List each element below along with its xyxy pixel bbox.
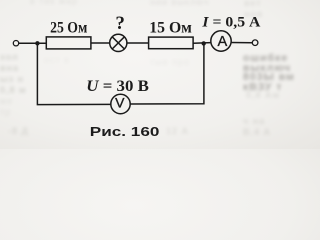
svg-text:A: A (218, 34, 228, 50)
wire R2 to ammeter (193, 42, 211, 45)
resistor R1 box (46, 37, 91, 49)
wire lamp to resistor R2 (127, 42, 149, 44)
lamp HL (110, 34, 127, 51)
wire left branch down (37, 44, 110, 105)
wire voltmeter to right branch up (130, 44, 204, 104)
wire R1 to lamp (91, 42, 110, 44)
resistor R2 box (149, 37, 194, 49)
svg-text:V: V (115, 94, 125, 110)
right terminal (252, 40, 258, 46)
node junction left (35, 41, 39, 45)
svg-text:U = 30 В: U = 30 В (86, 78, 149, 95)
wire ammeter to right terminal (231, 42, 252, 44)
svg-text:25 Ом: 25 Ом (50, 20, 88, 37)
svg-text:Рис. 160: Рис. 160 (90, 124, 160, 139)
node junction right (202, 41, 206, 45)
svg-text:?: ? (115, 13, 125, 34)
svg-text:15 Ом: 15 Ом (149, 20, 192, 37)
left terminal (13, 41, 18, 46)
faint page bleed-through background texture (243, 54, 295, 92)
svg-text:I = 0,5 А: I = 0,5 А (201, 14, 260, 30)
wire left terminal to resistor R1 (19, 42, 46, 44)
voltmeter PV (111, 94, 130, 113)
ammeter U1 (211, 31, 231, 51)
